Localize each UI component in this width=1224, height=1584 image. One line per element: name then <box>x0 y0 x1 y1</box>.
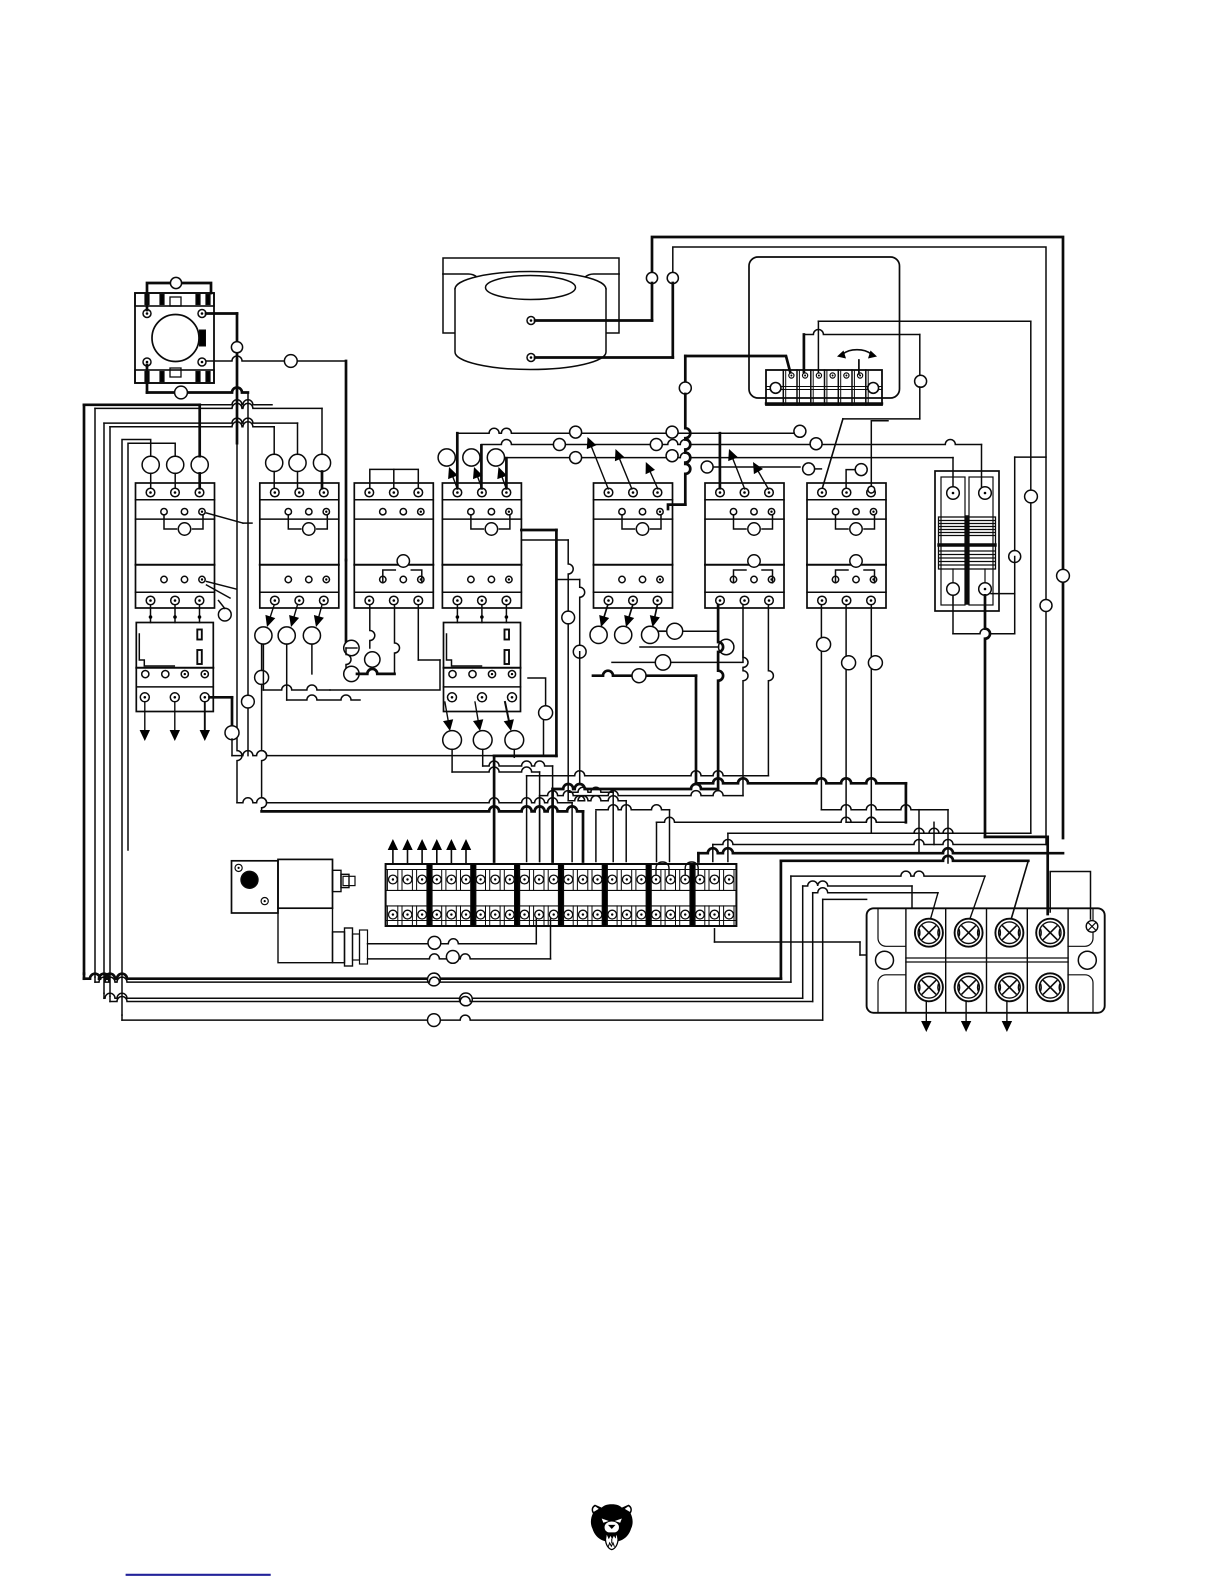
terminal T1-1 <box>527 317 535 325</box>
strip riser x669 <box>669 810 671 862</box>
TB1 jumper loops <box>656 862 669 875</box>
wire T1 upper terminal <box>535 319 652 322</box>
terminal block TB2 <box>867 908 1105 1013</box>
wire run y433 <box>457 428 800 433</box>
thick run y675 <box>593 671 696 676</box>
KM4 top arrows <box>453 477 458 489</box>
KM1 right circle wire <box>219 601 225 609</box>
strip riser x552 <box>552 766 554 862</box>
wire x346 lower <box>345 560 348 648</box>
wire run y444 <box>481 440 981 445</box>
TB1 right riser wire <box>714 929 716 942</box>
left bus wire 5 <box>122 440 151 1016</box>
wire into TB2 screw 1 <box>930 893 938 920</box>
wire x579 down <box>558 579 580 581</box>
bottom bus wire B <box>94 977 96 982</box>
KM5 top diagonals <box>592 447 609 489</box>
OL1 stub wires <box>150 605 152 623</box>
Grizzly bear logo <box>591 1504 633 1549</box>
wire SW1 pole3 <box>817 321 819 372</box>
wire PB1 to KM row <box>206 356 346 361</box>
junction circle x663 <box>655 655 670 670</box>
wire PB1 right-top down <box>206 312 237 315</box>
wire KM6 T2 down <box>743 605 748 796</box>
OL1 right wires <box>210 696 233 699</box>
wire PB1 top loop <box>147 283 211 310</box>
circuit breaker CB1 <box>935 471 999 611</box>
wire T1 lower terminal <box>535 356 673 359</box>
OL2 stub wires <box>456 605 458 623</box>
KM3 bottom wires <box>370 605 375 648</box>
wire nuts above KM4 <box>438 449 455 466</box>
KM4 bottom links <box>218 608 231 621</box>
switch SW1 terminal block <box>766 370 882 405</box>
KM5 extra nut <box>659 630 666 632</box>
contactor KM4 <box>442 483 521 608</box>
wire SW1 pole2 <box>803 335 806 373</box>
wire fan x948 <box>947 810 949 863</box>
terminal strip TB1 <box>386 864 737 926</box>
wire into TB2 screw 3 <box>1011 861 1028 920</box>
wire fan x905 <box>905 783 908 822</box>
run y802b to strip <box>237 798 572 803</box>
wire x568 down <box>521 539 568 541</box>
thick elbow to fan <box>696 778 906 783</box>
wire PB1 bottom loop <box>146 365 149 393</box>
OL2 exit arrows to wire nuts <box>445 702 448 720</box>
wire SW1 pole1 to KM5 <box>685 356 790 372</box>
run y755 wire <box>232 751 544 756</box>
bottom bus wire D <box>109 996 111 1001</box>
wire KM7 T2 down <box>846 605 851 822</box>
switch SW1 rotation arrow <box>843 350 871 354</box>
KM7 top feeds <box>846 470 858 489</box>
strip riser x539 <box>539 772 541 862</box>
left bus wire 6 <box>128 443 175 850</box>
left bus wire 2 <box>321 408 323 454</box>
wire CB1 main down <box>985 595 990 837</box>
wire PB1 bottom down <box>247 393 249 756</box>
OL1 exit arrows <box>144 702 146 730</box>
run y844 to strip <box>713 840 1046 845</box>
contactor KM3 <box>354 483 433 608</box>
wire top loop outer <box>652 237 1063 838</box>
TB2 exit arrows <box>925 1001 927 1021</box>
KM5 bottom arrows to wire nuts <box>604 605 608 617</box>
contactor KM1 <box>136 483 215 608</box>
wire KM6 T3 down <box>768 605 773 776</box>
wire fan x934 <box>933 822 935 844</box>
contactor KM6 <box>705 483 784 608</box>
KM1 aux exit wires <box>207 513 244 523</box>
wire KM6 T1 down <box>718 605 723 789</box>
strip riser x626 <box>625 801 627 862</box>
run y853 to strip <box>698 848 1063 853</box>
KM2 nut drops <box>262 644 264 690</box>
TB2 small screw <box>1086 921 1098 933</box>
transformer T1 toroid body <box>455 272 606 370</box>
left bus wire 3 <box>297 423 299 454</box>
switch enclosure SW1 <box>749 257 900 398</box>
wire KM7 T3 up <box>871 421 888 486</box>
wire KM7 T1 down <box>821 605 826 810</box>
overload relay OL2 <box>444 623 521 712</box>
KM6 top feeds <box>719 433 722 488</box>
wire x556 down <box>521 529 556 532</box>
KM4 top feed wires <box>456 433 459 488</box>
TB2 jumper loop <box>1050 872 1090 920</box>
KM2 top stubs <box>273 472 275 489</box>
left bus wire 1 <box>198 405 201 456</box>
wire breaker T1 feed <box>952 458 954 487</box>
pushbutton station PB1 <box>135 293 214 383</box>
wire breaker T2 feed <box>981 445 983 487</box>
overload relay OL1 <box>136 623 213 712</box>
run y833 to strip <box>728 828 1031 833</box>
transformer T1 mounting plate <box>443 258 619 333</box>
KM1 top stubs <box>150 473 152 488</box>
wire nuts above KM2 <box>266 454 283 471</box>
KM3 top jumper <box>370 469 419 488</box>
wire top loop inner <box>673 247 1046 845</box>
switch SW1 pointer <box>858 360 860 374</box>
bottom bus wire E <box>121 1015 123 1020</box>
OL2 nut3 drop <box>513 749 515 757</box>
contactor KM7 <box>807 483 886 608</box>
left bus wire 4 <box>273 427 275 455</box>
terminal T1-2 <box>527 354 535 362</box>
wire nuts below KM2 <box>270 605 274 617</box>
strip riser x613 <box>612 792 614 861</box>
solenoid valve SOL1 <box>232 859 368 966</box>
bottom bus wire C <box>103 993 105 998</box>
contactor KM5 <box>594 483 673 608</box>
wire KM7 T3 down <box>871 605 876 833</box>
wire run y457 <box>505 453 953 458</box>
wire into TB2 screw 2 <box>970 876 986 920</box>
wire fan x919 <box>918 810 920 854</box>
wire SOL1 plug 2 <box>368 954 551 959</box>
circle x262 wire <box>255 670 269 684</box>
wire CB1 bottom bracket <box>952 595 954 633</box>
TB2 screws <box>915 919 943 947</box>
wire SW1 pole2 diagonal to KM7 <box>822 419 843 488</box>
footer rule <box>127 1574 270 1576</box>
bottom bus wire A <box>83 974 86 979</box>
wire nuts above KM1 <box>142 456 159 473</box>
junction circle below KM6 <box>719 639 734 654</box>
wire SOL1 plug 1 <box>368 939 537 944</box>
TB1 exit arrows <box>392 850 394 864</box>
contactor KM2 <box>260 483 339 608</box>
run y811 to strip <box>262 806 583 811</box>
